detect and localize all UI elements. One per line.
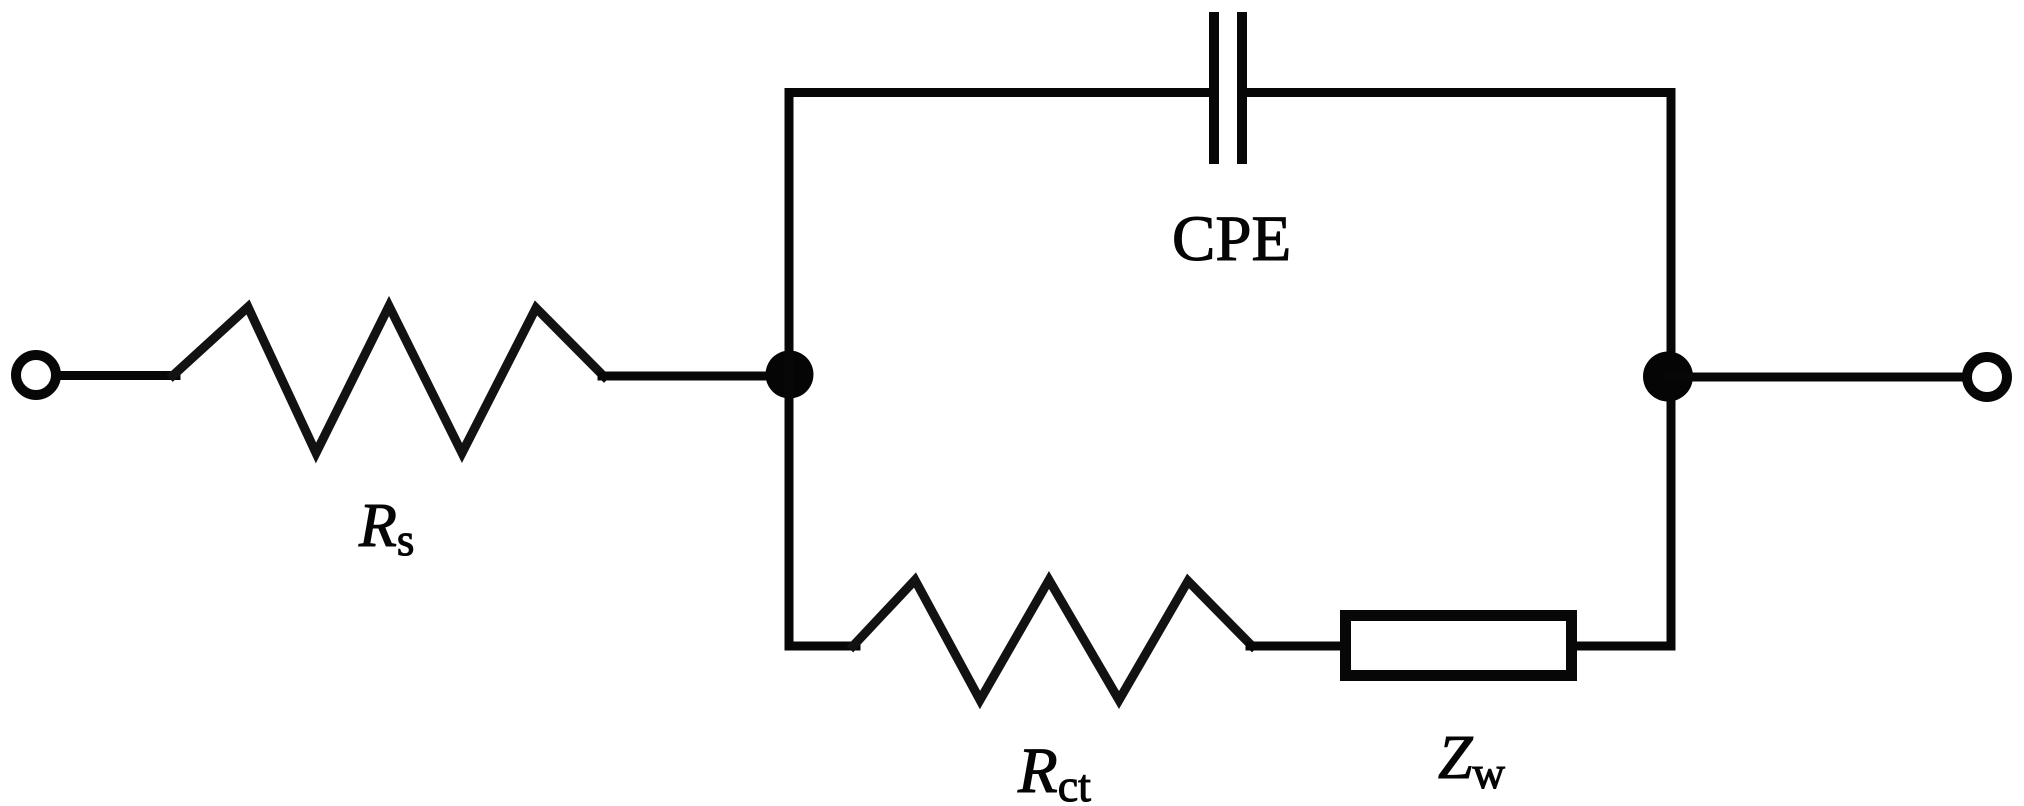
wire from Rct to Zw	[1250, 642, 1345, 651]
wire top left segment	[789, 88, 1209, 97]
wire from right node to right terminal	[1668, 373, 1964, 382]
resistor Rct	[853, 580, 1252, 700]
svg-text:CPE: CPE	[1172, 203, 1291, 275]
right terminal	[1967, 357, 2007, 397]
wire from Zw to right vertical	[1577, 642, 1671, 651]
wire from Rs to left node	[602, 372, 790, 381]
svg-text:Zw: Zw	[1438, 724, 1505, 798]
resistor Rs	[173, 306, 604, 453]
left terminal	[16, 355, 56, 395]
wire from left terminal to Rs	[56, 371, 176, 380]
node junction right	[1643, 352, 1693, 402]
wire right vertical branch	[1667, 93, 1676, 647]
wire top right segment	[1247, 88, 1671, 97]
wire bottom left segment	[789, 642, 856, 651]
warburg impedance Zw box	[1346, 616, 1572, 676]
capacitor CPE	[1209, 12, 1247, 164]
svg-text:Rct: Rct	[1017, 735, 1091, 806]
wire left vertical branch	[785, 93, 794, 647]
node junction left	[766, 351, 814, 399]
svg-text:Rs: Rs	[358, 492, 414, 565]
